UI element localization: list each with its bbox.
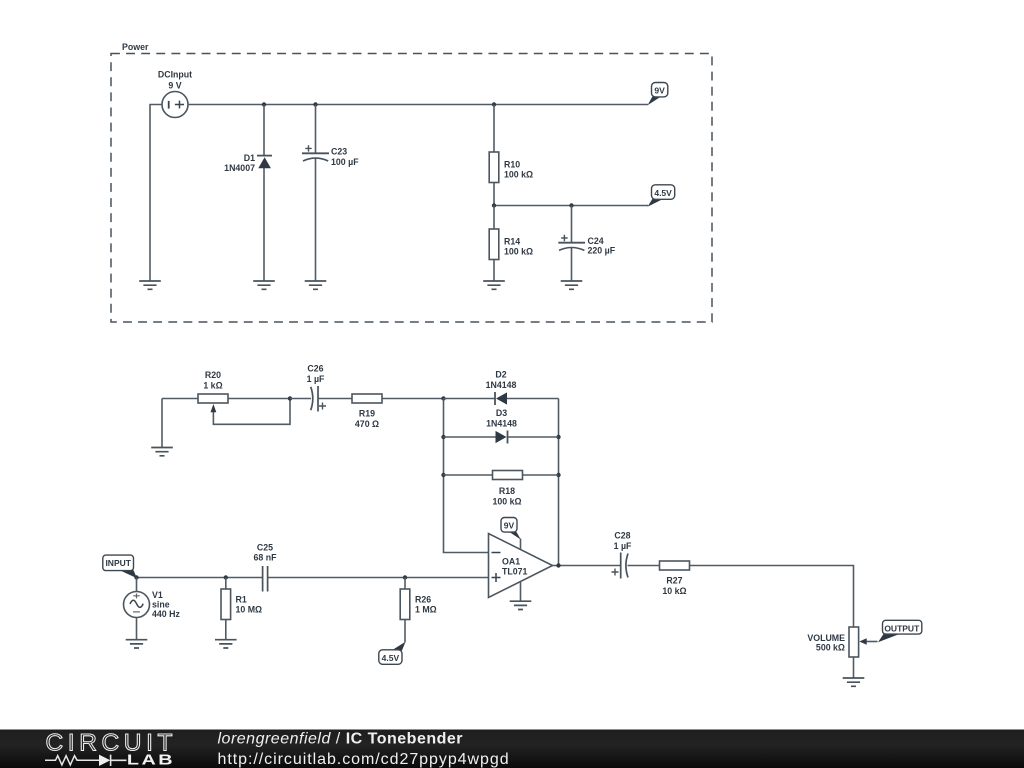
svg-text:R14: R14 xyxy=(504,236,520,246)
wire top 9V rail xyxy=(188,104,648,106)
node dot R1 top xyxy=(224,575,228,579)
svg-text:R26: R26 xyxy=(415,595,431,605)
node dot D3 left xyxy=(441,435,445,439)
node dot R10 top xyxy=(492,102,496,106)
svg-text:R27: R27 xyxy=(666,576,682,586)
node dot R18 left xyxy=(441,473,445,477)
resistor R14 100k xyxy=(489,206,533,282)
svg-text:Power: Power xyxy=(122,42,149,52)
capacitor C25 68nF xyxy=(254,543,278,592)
svg-text:220 µF: 220 µF xyxy=(588,246,616,256)
svg-text:1N4148: 1N4148 xyxy=(486,419,517,429)
resistor R18 100k xyxy=(444,471,559,507)
svg-text:R20: R20 xyxy=(205,370,221,380)
svg-text:VOLUME: VOLUME xyxy=(807,633,845,643)
node dot C23 top xyxy=(313,102,317,106)
svg-text:D1: D1 xyxy=(244,153,255,163)
node dot R19/D2 xyxy=(441,396,445,400)
net flag 9V (op-amp supply) xyxy=(501,518,521,551)
svg-text:4.5V: 4.5V xyxy=(382,653,400,663)
diode D3 1N4148 xyxy=(444,408,559,444)
wire source left to ground xyxy=(150,105,162,282)
net flag 9V xyxy=(648,83,668,106)
voltage source V1 sine 440Hz xyxy=(124,578,181,640)
resistor R26 1M xyxy=(400,578,437,643)
svg-text:1 MΩ: 1 MΩ xyxy=(415,605,437,615)
diode D1 1N4007 xyxy=(224,105,272,282)
svg-text:D2: D2 xyxy=(495,370,506,380)
svg-text:10 kΩ: 10 kΩ xyxy=(662,586,686,596)
svg-text:sine: sine xyxy=(152,600,170,610)
net flag INPUT xyxy=(103,555,137,578)
ground (R20) xyxy=(151,448,173,456)
footer bar xyxy=(0,730,1024,768)
svg-text:C24: C24 xyxy=(588,236,604,246)
logo diode xyxy=(99,755,110,766)
wire op-amp negative supply pin xyxy=(520,582,522,602)
svg-text:100 µF: 100 µF xyxy=(331,157,359,167)
svg-text:9V: 9V xyxy=(654,86,665,96)
potentiometer VOLUME 500k xyxy=(807,627,877,678)
wire 4.5V rail xyxy=(494,205,648,207)
svg-text:68 nF: 68 nF xyxy=(254,553,278,563)
svg-text:4.5V: 4.5V xyxy=(654,188,672,198)
svg-text:1 µF: 1 µF xyxy=(307,374,325,384)
ground (R1) xyxy=(215,640,237,648)
voltage source DCInput 9V xyxy=(158,70,192,118)
svg-text:1N4148: 1N4148 xyxy=(486,380,517,390)
capacitor C23 100uF xyxy=(302,105,359,282)
svg-text:lorengreenfield / IC Tonebende: lorengreenfield / IC Tonebender xyxy=(218,730,464,747)
potentiometer R20 1k xyxy=(162,370,290,448)
ground (source) xyxy=(139,281,161,289)
svg-text:470 Ω: 470 Ω xyxy=(355,419,379,429)
node dot D1 top xyxy=(262,102,266,106)
node dot R26 top xyxy=(403,575,407,579)
svg-text:OUTPUT: OUTPUT xyxy=(884,623,920,633)
wire R27 to volume pot xyxy=(690,566,854,628)
ground (C23) xyxy=(305,281,327,289)
svg-text:D3: D3 xyxy=(496,408,507,418)
diode D2 1N4148 xyxy=(444,370,559,406)
svg-text:V1: V1 xyxy=(152,590,163,600)
svg-text:100 kΩ: 100 kΩ xyxy=(504,169,533,179)
svg-text:1 kΩ: 1 kΩ xyxy=(203,381,222,391)
svg-text:DCInput: DCInput xyxy=(158,70,192,80)
resistor R19 470 xyxy=(352,394,444,429)
wire feedback right vertical xyxy=(558,399,560,566)
svg-text:R18: R18 xyxy=(499,486,515,496)
svg-text:1N4007: 1N4007 xyxy=(224,163,255,173)
wire op-amp output xyxy=(553,565,621,567)
node dot R20/C26 xyxy=(288,396,292,400)
svg-text:LAB: LAB xyxy=(127,751,175,768)
svg-text:TL071: TL071 xyxy=(502,566,528,576)
svg-text:100 kΩ: 100 kΩ xyxy=(492,497,521,507)
svg-text:10 MΩ: 10 MΩ xyxy=(236,605,263,615)
resistor R10 100k xyxy=(489,105,533,206)
op-amp OA1 TL071 xyxy=(489,534,553,598)
node dot op-amp output xyxy=(556,563,560,567)
svg-text:INPUT: INPUT xyxy=(105,558,131,568)
svg-text:9V: 9V xyxy=(504,521,515,531)
svg-text:R1: R1 xyxy=(236,595,247,605)
node dot R10/R14 junction xyxy=(492,203,496,207)
capacitor C26 1uF xyxy=(290,364,352,412)
ground (V1) xyxy=(126,640,148,648)
ground (op-amp) xyxy=(510,601,532,609)
net flag 4.5V xyxy=(648,185,675,207)
node dot C24 top xyxy=(569,203,573,207)
svg-text:http://circuitlab.com/cd27ppyp: http://circuitlab.com/cd27ppyp4wpgd xyxy=(218,751,510,768)
svg-text:OA1: OA1 xyxy=(502,556,520,566)
svg-text:100 kΩ: 100 kΩ xyxy=(504,246,533,256)
capacitor C24 220uF xyxy=(558,206,615,282)
ground (volume pot) xyxy=(843,678,865,686)
svg-text:C28: C28 xyxy=(614,531,630,541)
svg-text:R10: R10 xyxy=(504,159,520,169)
resistor R27 10k xyxy=(660,561,690,596)
wire input row xyxy=(137,577,489,579)
node dot R18 right xyxy=(556,473,560,477)
ground (D1) xyxy=(253,281,275,289)
svg-text:C25: C25 xyxy=(257,543,273,553)
capacitor C28 1uF xyxy=(612,531,660,579)
svg-text:R19: R19 xyxy=(359,409,375,419)
svg-text:1 µF: 1 µF xyxy=(614,541,632,551)
net flag OUTPUT xyxy=(878,620,922,642)
power section dashed border xyxy=(111,54,712,323)
node dot input/V1 xyxy=(134,575,138,579)
wire feedback left vertical xyxy=(444,399,489,553)
svg-text:C23: C23 xyxy=(331,147,347,157)
node dot D3 right xyxy=(556,435,560,439)
logo resistor zigzag xyxy=(45,756,99,765)
svg-text:500 kΩ: 500 kΩ xyxy=(816,643,845,653)
resistor R1 10M xyxy=(221,578,262,640)
svg-text:440 Hz: 440 Hz xyxy=(152,609,180,619)
net flag 4.5V (R26) xyxy=(379,642,406,665)
ground (R14) xyxy=(483,281,505,289)
svg-text:C26: C26 xyxy=(307,364,323,374)
ground (C24) xyxy=(561,281,583,289)
svg-text:9 V: 9 V xyxy=(168,81,181,91)
